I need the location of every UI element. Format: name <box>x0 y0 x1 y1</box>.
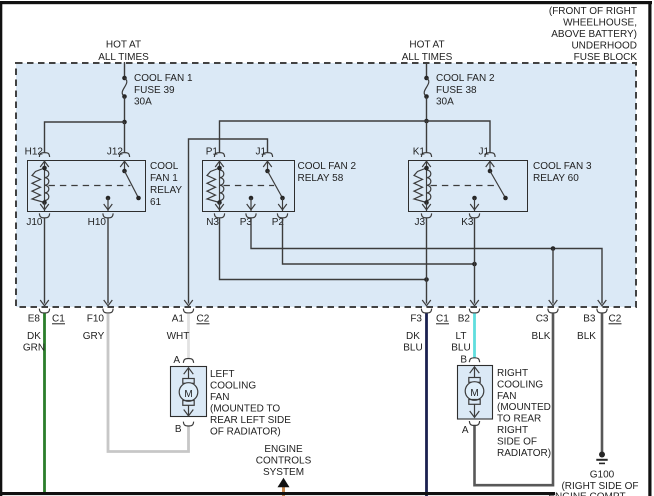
svg-text:SIDE OF: SIDE OF <box>497 436 537 447</box>
svg-text:LEFT: LEFT <box>210 369 234 380</box>
svg-text:B: B <box>175 424 182 435</box>
svg-text:RADIATOR): RADIATOR) <box>497 448 551 459</box>
svg-text:COOL: COOL <box>150 161 179 172</box>
svg-text:GRN: GRN <box>23 343 45 354</box>
svg-text:30A: 30A <box>436 97 454 108</box>
svg-text:COOL FAN 1: COOL FAN 1 <box>134 73 193 84</box>
svg-text:BLK: BLK <box>532 331 551 342</box>
pin K1 <box>413 147 432 158</box>
wire DK GRN from E8 <box>43 313 46 493</box>
wire relay60 J3 to connector F3 <box>426 218 428 304</box>
svg-text:E8: E8 <box>28 314 41 325</box>
right fan pin A <box>462 421 480 436</box>
svg-text:ALL TIMES: ALL TIMES <box>98 52 149 63</box>
svg-text:WHEELHOUSE,: WHEELHOUSE, <box>563 18 637 29</box>
wire relay61 J10 to connector E8 <box>44 218 46 304</box>
svg-text:M: M <box>470 388 478 399</box>
pin J10 <box>26 213 49 228</box>
wire junction to relay60 pin K1 <box>426 121 428 153</box>
relay61 label <box>150 161 182 208</box>
svg-text:P1: P1 <box>206 147 219 158</box>
svg-text:F3: F3 <box>410 314 422 325</box>
wire branch to relay61 pin H12 <box>45 122 125 153</box>
wire fuse38 to junction <box>426 97 428 122</box>
relay58 blade contact to pin P2 <box>278 198 287 211</box>
pin J1 <box>255 147 272 158</box>
pin P1 <box>206 147 225 158</box>
svg-text:HOT AT: HOT AT <box>409 40 444 51</box>
svg-text:B2: B2 <box>458 314 471 325</box>
svg-text:DK: DK <box>406 331 420 342</box>
svg-text:(MOUNTED TO: (MOUNTED TO <box>210 404 280 415</box>
svg-text:A: A <box>173 355 180 366</box>
wire BLK from B3 to G100 <box>601 313 604 453</box>
svg-text:H10: H10 <box>88 217 107 228</box>
svg-text:RELAY: RELAY <box>150 185 182 196</box>
svg-text:LT: LT <box>456 331 467 342</box>
right fan pin B <box>460 355 479 366</box>
junction node fuse38 output <box>424 119 429 124</box>
left fan label <box>210 369 291 438</box>
underhood fuse block (dashed boundary) <box>16 63 636 307</box>
pin N3 <box>206 213 224 228</box>
off-page link ENGINE CONTROLS SYSTEM <box>256 444 312 496</box>
svg-text:A: A <box>462 425 469 436</box>
relay K61 COOL FAN 1 <box>28 160 146 212</box>
svg-text:K1: K1 <box>413 147 426 158</box>
right fan label <box>497 368 551 459</box>
wire relay60 K3 to connector B2 <box>474 218 476 304</box>
junction node on J3 wire <box>424 277 429 282</box>
connector terminal F3 <box>410 300 449 325</box>
junction node ground bus to C3 <box>551 246 556 251</box>
svg-text:J12: J12 <box>107 147 124 158</box>
fuse F38 COOL FAN 2 30A <box>424 73 495 108</box>
svg-text:F10: F10 <box>87 314 105 325</box>
svg-text:J10: J10 <box>26 217 43 228</box>
connector terminal E8 <box>28 300 65 325</box>
fuse F39 COOL FAN 1 30A <box>122 73 193 108</box>
wire DK BLU from F3 <box>425 313 428 496</box>
svg-text:FAN 1: FAN 1 <box>150 173 178 184</box>
node HOT AT ALL TIMES (left) <box>98 40 149 64</box>
svg-text:TO REAR: TO REAR <box>497 414 541 425</box>
svg-text:C1: C1 <box>52 314 65 325</box>
wire relay58 P2 to relay60 K3 line <box>283 218 475 264</box>
relay60 label <box>533 161 592 184</box>
pin J3 <box>414 213 431 228</box>
wire feed to fuse 38 <box>426 62 428 78</box>
svg-text:ENGINE COMPT: ENGINE COMPT <box>548 492 625 496</box>
svg-text:COOL FAN 2: COOL FAN 2 <box>298 161 357 172</box>
svg-text:61: 61 <box>150 197 162 208</box>
svg-text:J1: J1 <box>255 147 266 158</box>
junction node fuse39 output <box>122 120 127 125</box>
connector terminal B2 <box>458 300 480 325</box>
svg-text:WHT: WHT <box>167 331 190 342</box>
svg-text:A1: A1 <box>172 314 185 325</box>
svg-text:(RIGHT SIDE OF: (RIGHT SIDE OF <box>561 481 638 492</box>
svg-text:RIGHT: RIGHT <box>497 425 528 436</box>
svg-text:G100: G100 <box>590 470 615 481</box>
svg-text:BLU: BLU <box>451 343 470 354</box>
connector terminal F10 <box>87 300 113 325</box>
svg-text:REAR LEFT SIDE: REAR LEFT SIDE <box>210 415 291 426</box>
pin H12 <box>25 147 50 158</box>
junction node on K3 wire <box>472 262 477 267</box>
svg-text:(MOUNTED: (MOUNTED <box>497 402 551 413</box>
svg-text:(FRONT OF RIGHT: (FRONT OF RIGHT <box>549 6 637 17</box>
node HOT AT ALL TIMES (right) <box>402 40 453 64</box>
label LT BLU <box>451 331 470 354</box>
wire relay58 P3 to ground bus <box>251 218 602 304</box>
svg-text:RELAY 58: RELAY 58 <box>298 173 344 184</box>
pin P2 <box>272 213 288 228</box>
svg-text:RIGHT: RIGHT <box>497 368 528 379</box>
svg-text:H12: H12 <box>25 147 44 158</box>
svg-text:UNDERHOOD: UNDERHOOD <box>571 41 637 52</box>
svg-text:B: B <box>460 355 467 366</box>
svg-text:ENGINE: ENGINE <box>264 444 303 455</box>
right cooling fan motor M (box) <box>458 366 493 420</box>
wire branch to relay58 pin P1 <box>220 121 427 153</box>
wire WHT from A1 to left fan A <box>187 313 190 358</box>
svg-text:BLU: BLU <box>403 343 422 354</box>
relay58 label <box>298 161 357 184</box>
svg-text:FUSE 39: FUSE 39 <box>134 85 175 96</box>
svg-text:DK: DK <box>27 331 41 342</box>
svg-text:RELAY 60: RELAY 60 <box>533 173 579 184</box>
relay K60 COOL FAN 3 <box>409 160 528 212</box>
wire relay58 N3 to relay60 J3 line <box>220 218 427 280</box>
svg-text:FAN: FAN <box>497 391 516 402</box>
svg-text:CONTROLS: CONTROLS <box>256 456 312 467</box>
svg-text:FUSE BLOCK: FUSE BLOCK <box>574 52 638 63</box>
wire GRY from F10 to left fan B <box>108 313 189 451</box>
wire branch to relay60 pin J1 <box>427 121 491 153</box>
svg-text:C2: C2 <box>197 314 210 325</box>
pin H10 <box>88 213 113 228</box>
svg-text:FUSE 38: FUSE 38 <box>436 85 477 96</box>
svg-text:COOLING: COOLING <box>210 381 256 392</box>
svg-text:J1: J1 <box>478 147 489 158</box>
relay K58 COOL FAN 2 <box>203 160 295 212</box>
wire relay58 pin J1 to connector A1 <box>189 139 268 304</box>
svg-text:B3: B3 <box>583 314 596 325</box>
label DK BLU <box>403 331 422 354</box>
svg-text:BLK: BLK <box>577 331 596 342</box>
connector terminal B3 <box>583 300 621 325</box>
svg-text:J3: J3 <box>414 217 425 228</box>
wire junction to relay61 pin J12 <box>124 122 126 153</box>
wire feed to fuse 39 <box>124 62 126 78</box>
svg-text:C1: C1 <box>436 314 449 325</box>
left cooling fan motor M (box) <box>171 367 207 417</box>
svg-text:N3: N3 <box>206 217 219 228</box>
ground G100 <box>548 452 638 496</box>
svg-text:ALL TIMES: ALL TIMES <box>402 52 453 63</box>
svg-text:30A: 30A <box>134 97 152 108</box>
wire LT BLU from B2 to right fan B <box>473 313 476 357</box>
pin J1 <box>478 147 495 158</box>
left fan pin B <box>175 422 194 435</box>
svg-text:FAN: FAN <box>210 392 229 403</box>
left fan pin A <box>173 355 193 366</box>
svg-text:C3: C3 <box>536 314 549 325</box>
svg-text:COOL FAN 3: COOL FAN 3 <box>533 161 592 172</box>
svg-text:GRY: GRY <box>83 331 105 342</box>
connector terminal C3 <box>536 300 558 325</box>
connector terminal A1 <box>172 300 210 325</box>
svg-text:M: M <box>184 389 192 400</box>
fuse block location caption <box>549 6 637 63</box>
svg-text:K3: K3 <box>461 217 474 228</box>
wire fuse39 to junction <box>124 97 126 123</box>
label DK GRN <box>23 331 45 354</box>
wire relay61 H10 to connector F10 <box>107 218 109 304</box>
pin P3 <box>240 213 256 228</box>
pin J12 <box>107 147 130 158</box>
svg-text:OF RADIATOR): OF RADIATOR) <box>210 427 281 438</box>
pin K3 <box>461 213 479 228</box>
wire ground bus drop to connector C3 <box>552 249 554 304</box>
svg-text:ABOVE BATTERY): ABOVE BATTERY) <box>551 29 637 40</box>
svg-text:C2: C2 <box>609 314 622 325</box>
svg-text:HOT AT: HOT AT <box>106 40 141 51</box>
svg-text:COOL FAN 2: COOL FAN 2 <box>436 73 495 84</box>
wire BLK from C3 to right fan A <box>475 313 554 485</box>
svg-text:COOLING: COOLING <box>497 379 543 390</box>
svg-text:SYSTEM: SYSTEM <box>263 467 304 478</box>
